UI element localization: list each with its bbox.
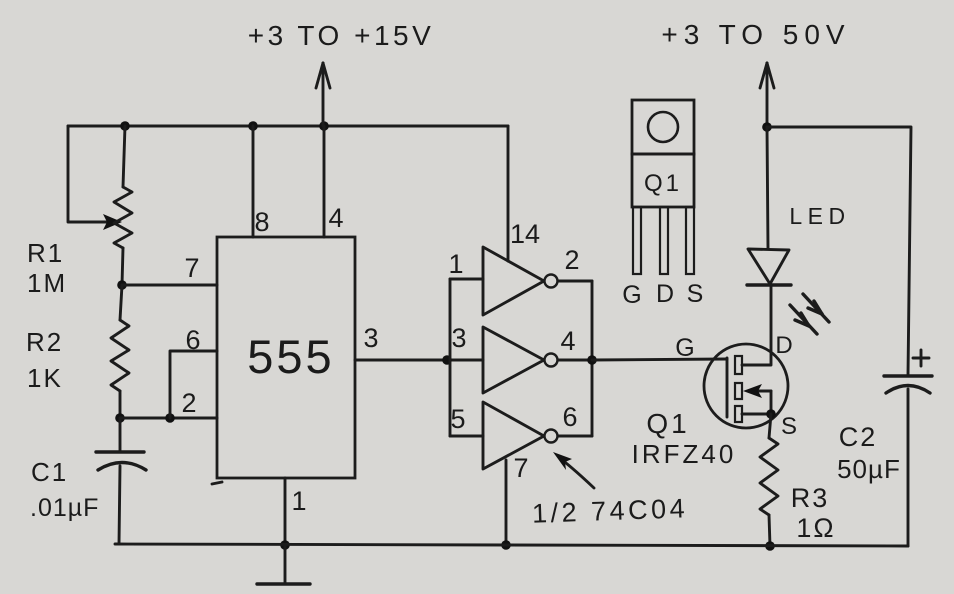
wire output bus	[591, 281, 594, 436]
svg-text:G: G	[622, 281, 641, 309]
stray tick mark	[212, 482, 222, 484]
wire LED anode	[767, 127, 768, 249]
node top rail pin4	[319, 121, 329, 131]
wire pin 6	[170, 351, 217, 418]
svg-text:D: D	[775, 332, 792, 359]
svg-text:R3: R3	[791, 483, 830, 513]
svg-text:1: 1	[291, 486, 306, 516]
svg-text:2: 2	[564, 245, 579, 275]
wire pin 7	[122, 284, 217, 287]
wire gate from inverters	[592, 359, 727, 360]
svg-text:G: G	[675, 334, 694, 362]
svg-text:6: 6	[562, 402, 577, 432]
svg-text:4: 4	[560, 326, 575, 356]
wire left vertical to wiper	[68, 126, 108, 222]
svg-text:7: 7	[184, 253, 199, 283]
svg-text:S: S	[781, 413, 797, 440]
inverter U2c	[483, 402, 544, 469]
op-amp U1 555 box	[217, 237, 355, 478]
wire inverter input bus	[449, 279, 452, 436]
node top right	[762, 122, 772, 132]
node output bus	[587, 355, 597, 365]
svg-text:IRFZ40: IRFZ40	[632, 439, 737, 469]
svg-text:D: D	[656, 280, 674, 308]
capacitor C2	[884, 374, 932, 377]
light arrow 2	[790, 305, 817, 334]
wire pin 14 supply	[507, 126, 510, 261]
light arrow 1	[803, 294, 829, 322]
arrow to inverter bubble	[561, 459, 594, 488]
diode LED	[748, 249, 789, 284]
node top rail left	[120, 121, 130, 131]
svg-text:1M: 1M	[27, 268, 67, 298]
node R3 bottom	[765, 541, 775, 551]
resistor R2	[120, 285, 122, 320]
svg-text:S: S	[687, 280, 704, 308]
wire pin 4	[323, 126, 326, 237]
svg-text:1: 1	[448, 249, 463, 279]
channel segment top	[735, 356, 742, 374]
svg-text:555: 555	[247, 330, 334, 383]
wiper arrowhead of R1	[103, 214, 122, 230]
svg-text:1/2 74C04: 1/2 74C04	[532, 493, 689, 528]
svg-text:LED: LED	[789, 203, 850, 229]
svg-text:7: 7	[513, 453, 528, 483]
package leg G	[633, 207, 641, 274]
svg-text:C1: C1	[31, 457, 68, 487]
svg-text:5: 5	[450, 404, 465, 434]
channel segment middle	[735, 383, 742, 399]
wire pin 7 inverter ground	[505, 460, 508, 545]
svg-text:3: 3	[363, 323, 378, 353]
wire input stub 1	[450, 278, 483, 281]
svg-text:.01µF: .01µF	[30, 494, 99, 522]
resistor R3	[769, 414, 771, 438]
wire top supply rail	[68, 125, 508, 128]
wire pin 8	[252, 126, 255, 237]
node pin3 to bus	[442, 355, 452, 365]
package leg S	[686, 207, 694, 274]
resistor R1 potentiometer	[123, 126, 125, 187]
package body	[632, 154, 694, 207]
wire pin 1	[284, 478, 287, 545]
svg-text:R2: R2	[26, 327, 63, 357]
transistor Q1 MOSFET symbol	[704, 344, 788, 428]
wire input stub 3	[450, 359, 483, 362]
node inverter pin7 bottom	[501, 540, 511, 550]
power +3 TO 50V arrow	[766, 63, 769, 130]
gate bar	[726, 358, 729, 417]
svg-text:6: 6	[185, 325, 200, 355]
node R1 bottom	[117, 280, 127, 290]
body diode arrow	[752, 390, 771, 393]
plus sign C2	[913, 350, 929, 366]
svg-text:3: 3	[451, 323, 466, 353]
wire output stub 6	[558, 435, 592, 438]
svg-text:+3 TO +15V: +3 TO +15V	[248, 20, 435, 51]
inverter U2a	[483, 247, 544, 315]
wire pin 3 output	[355, 359, 450, 362]
wire output stub 4	[558, 359, 592, 362]
ground	[284, 545, 287, 584]
node R2 bottom	[115, 413, 125, 423]
wire bottom rail	[115, 544, 908, 546]
svg-text:Q1: Q1	[646, 408, 689, 439]
svg-text:1Ω: 1Ω	[796, 513, 835, 543]
svg-text:50µF: 50µF	[837, 454, 901, 484]
svg-text:Q1: Q1	[644, 170, 682, 197]
svg-text:+3 TO 50V: +3 TO 50V	[661, 19, 850, 50]
svg-text:1K: 1K	[27, 363, 63, 393]
svg-text:8: 8	[254, 207, 269, 237]
inverter U2b	[483, 327, 544, 393]
node pin2/pin6 tee	[165, 413, 175, 423]
svg-text:14: 14	[510, 219, 540, 249]
node pin1 bottom	[280, 540, 290, 550]
wire output stub 2	[558, 280, 592, 283]
wire to C2 top	[767, 127, 911, 375]
channel segment bottom	[735, 406, 742, 422]
power +3 TO +15V arrow	[322, 63, 325, 126]
package leg D	[660, 207, 668, 274]
node source	[766, 409, 776, 419]
svg-text:4: 4	[328, 203, 343, 233]
node top rail pin8	[248, 121, 258, 131]
capacitor C1	[119, 418, 122, 452]
wire pin 2	[120, 417, 217, 420]
wire input stub 5	[450, 435, 483, 438]
transistor Q1 package TO-220 tab	[632, 100, 694, 154]
svg-text:C2: C2	[839, 422, 878, 452]
source connection	[742, 413, 771, 416]
drain connection	[742, 285, 771, 365]
svg-text:R1: R1	[27, 238, 64, 268]
svg-text:2: 2	[181, 388, 196, 418]
